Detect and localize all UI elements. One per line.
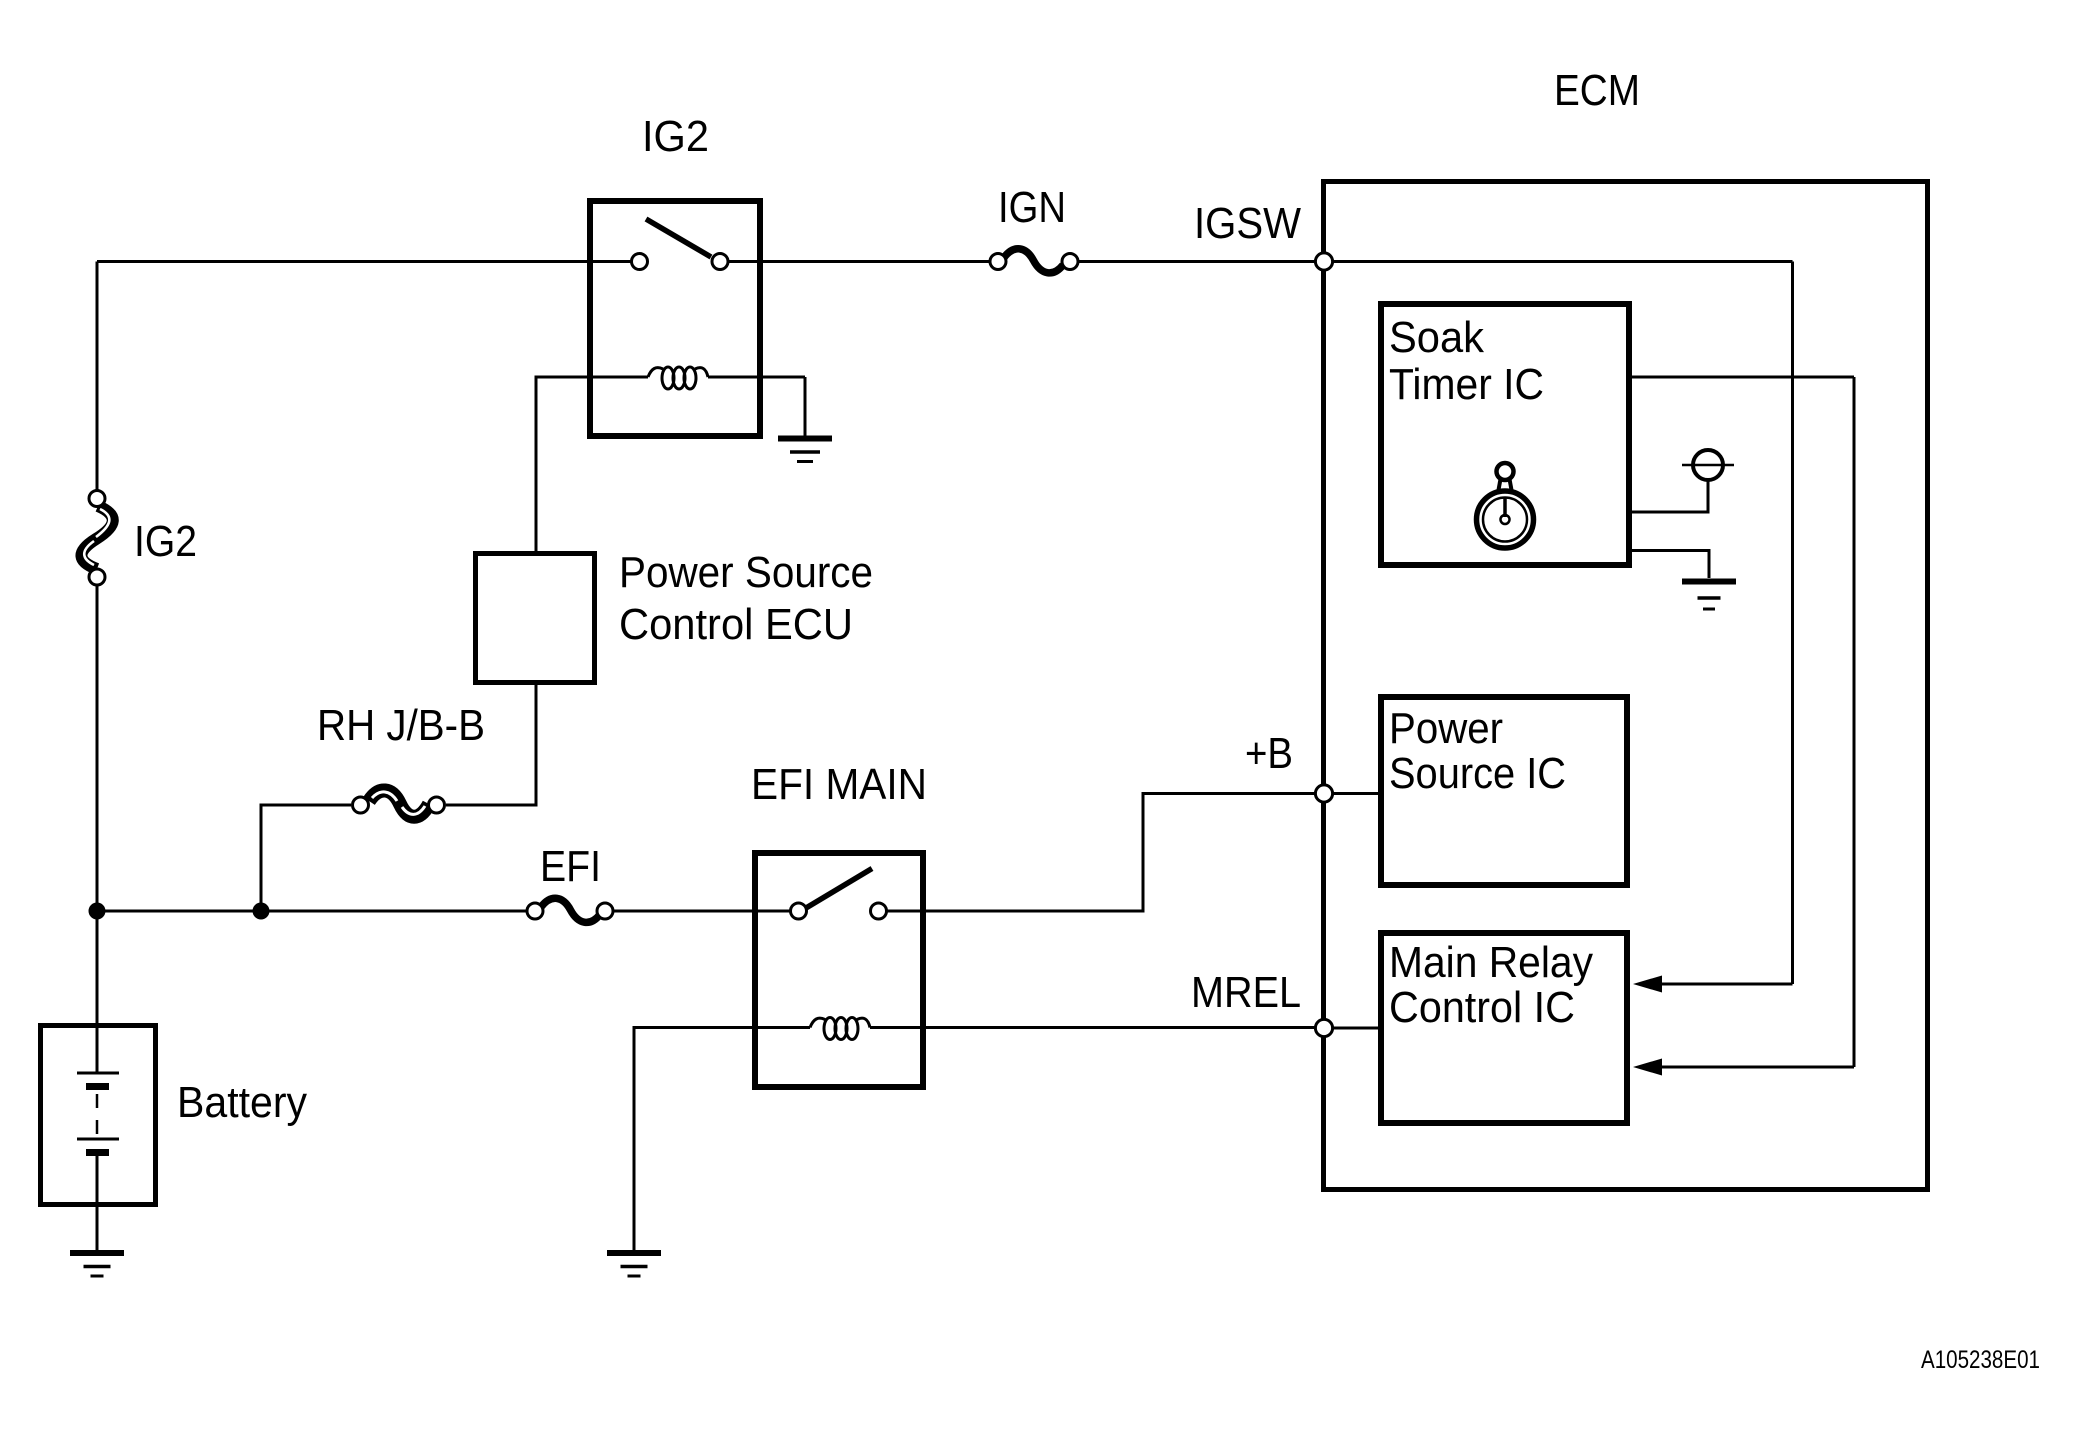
svg-text:Control ECU: Control ECU	[619, 600, 853, 649]
Power Source Control ECU box	[476, 554, 595, 683]
svg-text:EFI MAIN: EFI MAIN	[751, 760, 927, 809]
junction dot at battery branch	[89, 903, 106, 920]
ground (battery)	[70, 1253, 124, 1276]
fusible link IG2	[81, 491, 112, 586]
relay EFI MAIN box	[755, 853, 923, 1087]
bus horizontal battery line	[97, 910, 526, 913]
svg-text:Control IC: Control IC	[1389, 983, 1575, 1032]
junction dot at RH branch	[253, 903, 270, 920]
switch contact right IG2	[712, 254, 728, 270]
terminal circle	[1693, 450, 1723, 480]
relay IG2 box	[590, 201, 760, 436]
Soak Timer IC box	[1381, 304, 1629, 565]
svg-text:MREL: MREL	[1191, 968, 1301, 1017]
switch blade IG2	[646, 219, 711, 257]
wire IGN fuse to IGSW node and into ECM	[1078, 260, 1793, 263]
arrow into Main Relay Control IC (from IGSW)	[1660, 983, 1793, 986]
ECM box	[1324, 182, 1928, 1190]
wire Soak Timer to vertical B	[1629, 376, 1854, 379]
svg-text:Soak: Soak	[1389, 313, 1485, 362]
node +B	[1315, 785, 1332, 802]
wire vertical A (IGSW to Main Relay Control IC arrow)	[1791, 262, 1794, 985]
wire vertical B (Soak to Main Relay Control IC arrow 2)	[1853, 377, 1856, 1067]
wire EFI MAIN coil left lead to ground	[634, 1028, 755, 1251]
switch contact left EFI MAIN	[791, 903, 807, 919]
wire left vertical lower (fusible link to battery)	[96, 586, 99, 1025]
svg-text:IGSW: IGSW	[1194, 199, 1301, 248]
wire Soak Timer to ground	[1629, 551, 1709, 579]
fuse EFI	[527, 898, 613, 922]
svg-text:Battery: Battery	[177, 1078, 307, 1127]
switch contact left IG2	[632, 254, 648, 270]
switch blade EFI MAIN	[806, 869, 872, 909]
svg-text:EFI: EFI	[540, 842, 601, 891]
svg-text:IG2: IG2	[642, 112, 709, 161]
wire PSC ECU down to RH J/B-B	[446, 683, 536, 805]
wire EFI MAIN contact to +B node	[888, 794, 1314, 912]
stopwatch icon	[1477, 463, 1534, 548]
Power Source IC box	[1381, 697, 1627, 885]
svg-text:Source IC: Source IC	[1389, 749, 1566, 798]
wire Soak Timer to terminal circle	[1629, 481, 1708, 512]
svg-text:IGN: IGN	[998, 183, 1066, 232]
arrowhead 1	[1633, 976, 1662, 993]
wire +B node to Power Source IC	[1324, 792, 1381, 795]
svg-text:Power: Power	[1389, 704, 1503, 753]
svg-text:Power Source: Power Source	[619, 548, 873, 597]
svg-text:RH J/B-B: RH J/B-B	[317, 701, 485, 750]
svg-text:Main Relay: Main Relay	[1389, 938, 1593, 987]
switch contact right EFI MAIN	[871, 903, 887, 919]
svg-text:IG2: IG2	[134, 517, 197, 566]
ground (Soak Timer)	[1682, 582, 1736, 610]
Main Relay Control IC box	[1381, 933, 1627, 1123]
battery box	[41, 1026, 156, 1205]
wire top-left horizontal from battery branch to IG2 relay	[97, 260, 632, 263]
svg-text:+B: +B	[1245, 729, 1293, 778]
arrow into Main Relay Control IC (from Soak)	[1660, 1066, 1854, 1069]
wire left vertical upper (to IG2 fusible link)	[96, 262, 99, 490]
coil IG2 relay	[590, 367, 805, 389]
ground (EFI MAIN coil)	[607, 1253, 661, 1276]
svg-text:A105238E01: A105238E01	[1921, 1346, 2040, 1374]
battery cells	[77, 1028, 119, 1250]
fuse IGN	[990, 249, 1078, 273]
terminal circle crossbar	[1682, 464, 1734, 467]
wire RH J/B-B to bus junction	[261, 805, 351, 911]
arrowhead 2	[1633, 1059, 1662, 1076]
svg-text:Timer IC: Timer IC	[1389, 360, 1544, 409]
ground (IG2 relay coil)	[778, 439, 832, 462]
node MREL	[1315, 1019, 1332, 1036]
node IGSW	[1315, 253, 1332, 270]
wire EFI fuse to EFI MAIN relay	[613, 910, 888, 913]
wire MREL node to Main Relay Control IC	[1324, 1027, 1381, 1030]
wire from IG2 relay contact to IGN fuse	[728, 260, 990, 263]
wire coil left lead down to Power Source Control ECU	[536, 377, 590, 553]
svg-text:ECM: ECM	[1554, 66, 1640, 115]
coil EFI MAIN relay	[755, 1018, 1324, 1040]
fusible link RH J/B-B	[353, 790, 445, 816]
wire coil right lead down to ground	[804, 377, 807, 436]
